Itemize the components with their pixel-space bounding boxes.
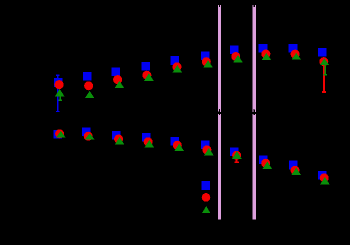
right plum vertical line, lower panel segment [253, 114, 256, 220]
blue square marker, top panel point 6 [201, 52, 210, 61]
red circle marker, top panel point 9 [291, 50, 300, 59]
red circle marker, top panel point 6 [202, 57, 211, 66]
red circle marker, bottom panel point 6 [202, 145, 211, 154]
legend blue square [201, 181, 210, 190]
blue square marker, top panel point 3 [112, 67, 121, 76]
red error bar, bottom point 7 [234, 155, 239, 163]
blue square marker, bottom panel point 2 [82, 127, 91, 136]
blue square marker, bottom panel point 5 [170, 137, 179, 146]
blue square marker, bottom panel point 8 [259, 155, 268, 164]
blue square marker, bottom panel point 10 [318, 171, 327, 180]
green triangle marker, bottom panel point 5 [174, 144, 184, 152]
red circle marker, bottom panel point 8 [261, 159, 270, 168]
blue square marker, bottom panel point 6 [201, 141, 210, 150]
green triangle marker, bottom panel point 1 [56, 131, 66, 138]
green error bar, top point 1 [59, 93, 62, 101]
red circle marker, bottom panel point 5 [173, 141, 182, 150]
blue square marker, top panel point 1 [54, 78, 63, 87]
red circle marker, top panel point 5 [173, 62, 182, 71]
green triangle marker, bottom panel point 9 [291, 168, 301, 176]
blue square marker, top panel point 10 [318, 48, 327, 57]
red error bar, top point 10 [322, 62, 326, 93]
left plum vertical line, lower panel segment [218, 114, 221, 220]
blue square marker, bottom panel point 7 [230, 147, 239, 156]
green triangle marker, bottom panel point 8 [263, 161, 273, 169]
green error bar, top point 10 [323, 62, 327, 76]
green triangle marker, top panel point 10 [320, 58, 330, 65]
red circle marker, bottom panel point 1 [55, 129, 64, 138]
right plum vertical line, upper panel segment [253, 5, 256, 112]
green triangle marker, bottom panel point 6 [204, 148, 214, 156]
green triangle marker, top panel point 3 [115, 81, 125, 88]
red circle marker, bottom panel point 10 [320, 173, 329, 182]
blue square marker, bottom panel point 3 [112, 131, 121, 140]
blue square marker, bottom panel point 1 [53, 130, 62, 139]
black x-axis tick notches over right line [253, 5, 255, 115]
red circle marker, bottom panel point 4 [144, 137, 153, 146]
green triangle marker, top panel point 5 [173, 65, 183, 73]
green triangle marker, top panel point 1 [55, 89, 65, 97]
blue square marker, bottom panel point 9 [289, 161, 298, 170]
red circle marker, top panel point 4 [142, 71, 151, 80]
blue square marker, top panel point 4 [142, 62, 151, 71]
green triangle marker, top panel point 9 [292, 53, 302, 60]
black x-axis tick notches over left line [219, 5, 221, 115]
green triangle marker, top panel point 8 [262, 53, 272, 60]
blue square marker, top panel point 5 [171, 56, 180, 65]
red circle marker, top panel point 3 [113, 75, 122, 84]
red circle marker, bottom panel point 2 [84, 132, 93, 141]
red circle marker, bottom panel point 9 [291, 166, 300, 175]
left plum vertical line, upper panel segment [218, 5, 221, 112]
blue square marker, top panel point 9 [289, 44, 298, 53]
blue square marker, top panel point 8 [259, 44, 268, 53]
red circle marker, top panel point 8 [261, 50, 270, 59]
red circle marker, top panel point 10 [319, 57, 328, 66]
blue error bar, top point 1 [56, 75, 60, 113]
green triangle marker, bottom panel point 3 [115, 137, 125, 145]
red circle marker, top panel point 2 [84, 81, 93, 90]
green triangle marker, top panel point 6 [203, 60, 213, 67]
red circle marker, bottom panel point 3 [114, 135, 123, 144]
blue square marker, bottom panel point 4 [142, 133, 151, 142]
green triangle marker, bottom panel point 4 [145, 140, 155, 148]
legend red circle [202, 193, 211, 202]
green triangle marker, top panel point 4 [144, 73, 154, 81]
green triangle marker, bottom panel point 10 [320, 177, 330, 185]
blue square marker, top panel point 7 [230, 46, 239, 55]
green triangle marker, bottom panel point 2 [85, 133, 95, 139]
legend green triangle [202, 206, 210, 213]
red circle marker, bottom panel point 7 [232, 151, 241, 160]
blue square marker, top panel point 2 [83, 72, 92, 81]
green triangle marker, top panel point 7 [233, 55, 243, 62]
red circle marker, top panel point 7 [231, 52, 240, 61]
green triangle marker, bottom panel point 7 [232, 151, 242, 159]
green triangle marker, top panel point 2 [85, 91, 95, 98]
red circle marker, top panel point 1 [55, 80, 64, 89]
